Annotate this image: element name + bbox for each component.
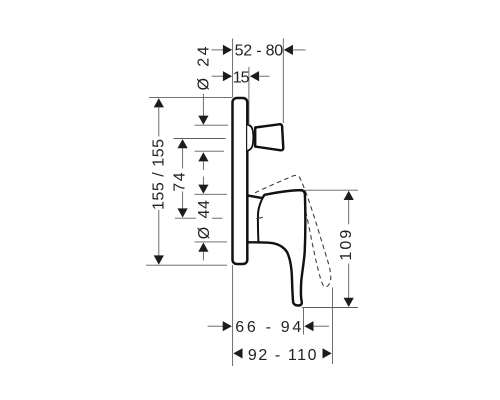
svg-text:Ø 44: Ø 44 <box>196 200 213 240</box>
svg-text:109: 109 <box>338 228 355 261</box>
svg-text:52 - 80: 52 - 80 <box>235 43 284 60</box>
svg-text:92 - 110: 92 - 110 <box>248 347 318 364</box>
svg-text:15: 15 <box>233 70 250 87</box>
svg-text:66 - 94: 66 - 94 <box>235 319 304 336</box>
svg-text:Ø 24: Ø 24 <box>195 44 212 90</box>
svg-text:155 / 155: 155 / 155 <box>151 138 168 210</box>
svg-text:74: 74 <box>172 171 189 192</box>
